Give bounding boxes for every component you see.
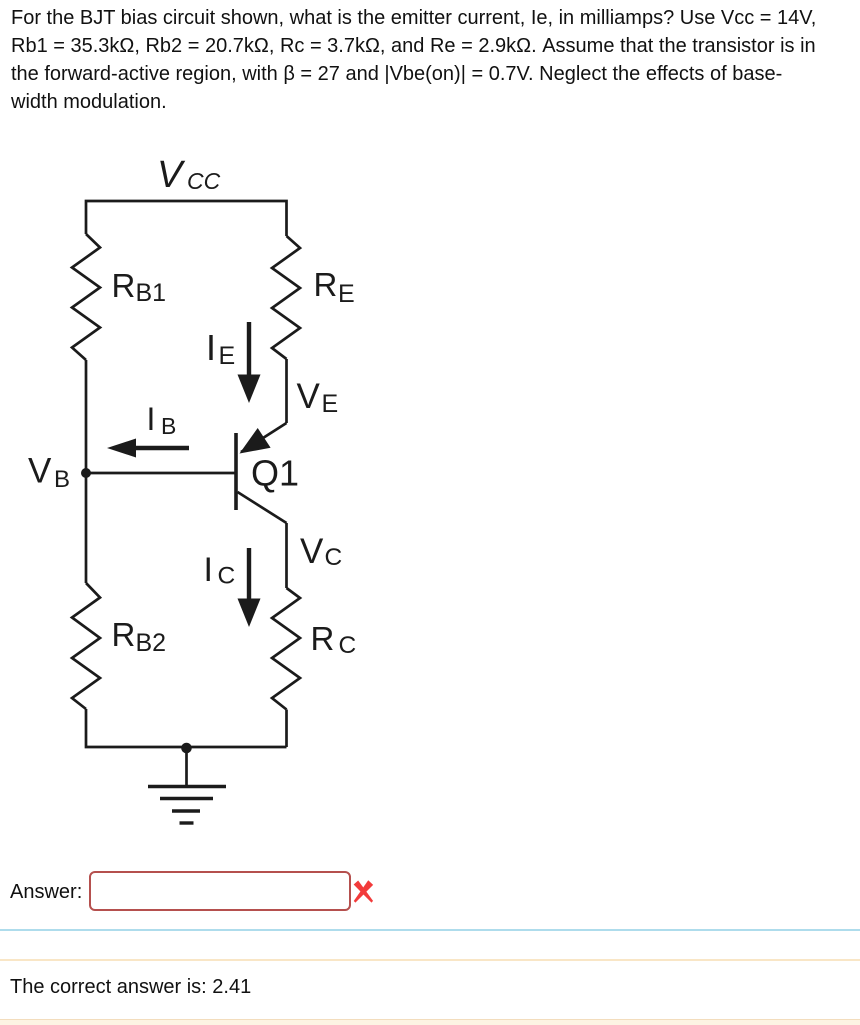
- svg-text:R: R: [314, 266, 338, 303]
- wire collector vertical to RC: [285, 523, 288, 588]
- svg-text:I: I: [204, 551, 213, 589]
- resistor RC: [272, 588, 300, 710]
- svg-text:E: E: [322, 390, 339, 418]
- svg-text:B: B: [161, 413, 176, 439]
- wire left rail below RB1 to VB node: [85, 360, 88, 473]
- transistor Q1 emitter arrow (PNP): [240, 428, 271, 454]
- svg-text:C: C: [218, 563, 236, 590]
- current arrow IC: [238, 548, 261, 627]
- wire left rail VB node to RB2: [85, 473, 88, 583]
- svg-text:B1: B1: [136, 279, 167, 307]
- svg-text:R: R: [112, 267, 136, 304]
- incorrect mark: [352, 879, 375, 904]
- svg-text:E: E: [338, 280, 355, 308]
- svg-text:B2: B2: [136, 629, 167, 657]
- node VB junction dot: [81, 468, 91, 478]
- svg-text:V: V: [28, 452, 52, 491]
- resistor RB2: [72, 583, 100, 709]
- wire emitter diagonal into Q1: [241, 423, 287, 452]
- wire RC to bottom rail: [285, 710, 288, 748]
- svg-text:I: I: [206, 327, 216, 368]
- wire ground stub: [185, 747, 188, 786]
- current arrow IE: [238, 322, 261, 403]
- resistor RE: [272, 236, 300, 359]
- svg-text:V: V: [157, 154, 186, 196]
- circuit schematic: [0, 140, 420, 840]
- svg-text:V: V: [300, 532, 324, 571]
- svg-text:I: I: [147, 401, 156, 437]
- divider blue: [0, 929, 860, 931]
- wire left rail below RB2 to bottom rail: [86, 709, 287, 747]
- svg-text:C: C: [325, 544, 343, 571]
- wire base from VB node to Q1: [86, 472, 235, 475]
- svg-text:R: R: [311, 620, 335, 657]
- svg-text:E: E: [219, 342, 236, 370]
- wire collector diagonal from Q1: [238, 492, 287, 523]
- svg-text:R: R: [112, 616, 136, 653]
- wire top rail Vcc: [86, 201, 287, 236]
- svg-text:V: V: [297, 377, 321, 416]
- divider peach: [0, 959, 860, 961]
- transistor Q1 base bar: [234, 433, 238, 510]
- svg-text:C: C: [339, 632, 357, 659]
- svg-text:B: B: [54, 466, 70, 493]
- svg-text:Q1: Q1: [251, 453, 299, 494]
- wire emitter vertical from RE: [285, 359, 288, 423]
- bottom band: [0, 1019, 860, 1025]
- resistor RB1: [72, 234, 100, 360]
- svg-text:CC: CC: [187, 168, 221, 194]
- ground: [148, 787, 226, 824]
- current arrow IB: [107, 439, 189, 458]
- node ground junction dot: [181, 743, 192, 754]
